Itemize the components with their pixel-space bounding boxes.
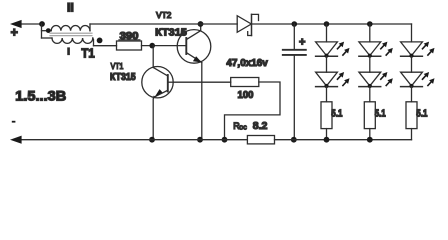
- wire: - rail from Roc to LED branches: [275, 139, 412, 141]
- LED HL1: [316, 42, 350, 58]
- wire: branch 1 top stem: [326, 24, 328, 42]
- wire: branch 3 top stem: [411, 24, 413, 42]
- wire: branch 2 between LEDs: [369, 56, 371, 72]
- wire: branch 2 LED to resistor: [369, 87, 371, 102]
- svg-text:T1: T1: [81, 46, 94, 60]
- wire: resistor 100 to - rail (stepped): [225, 82, 281, 140]
- resistor R 100: [231, 78, 259, 101]
- node A junction dot (rail to transformer): [39, 21, 45, 27]
- wire: branch 1 LED to resistor: [326, 87, 328, 102]
- wire: VT1 emitter down to - rail: [152, 97, 155, 140]
- transformer T1 core: [50, 33, 92, 36]
- svg-text:5.1: 5.1: [331, 109, 342, 120]
- transistor VT2 KT315: [177, 30, 211, 64]
- svg-text:8.2: 8.2: [253, 120, 268, 132]
- junction dot VT1 emitter on - rail: [149, 137, 155, 143]
- transformer T1 winding II (top): [42, 24, 91, 31]
- junction dot LED branch 1 on - rail: [324, 137, 330, 143]
- LED HL5: [401, 42, 435, 58]
- wire: + rail from diode to LED branches: [252, 23, 412, 25]
- transformer T1 winding I (bottom): [42, 38, 94, 46]
- svg-text:1.5...3В: 1.5...3В: [15, 87, 66, 103]
- wire: branch 3 bottom stem: [411, 129, 413, 140]
- diode VD1 (Schottky): [237, 14, 258, 35]
- LED HL3: [359, 42, 393, 58]
- resistor 5.1 branch 3: [406, 102, 428, 129]
- junction dot capacitor bottom on - rail: [291, 137, 297, 143]
- node B junction dot (390 / VT1 collector / VT2 base): [149, 43, 155, 49]
- LED HL2: [316, 72, 350, 88]
- svg-text:VT2: VT2: [156, 11, 171, 20]
- wire: winding I to resistor 390: [94, 45, 117, 47]
- junction dot LED branch 1 on + rail: [324, 21, 330, 27]
- capacitor C1 47,0x16v: [283, 37, 306, 55]
- wire: branch 2 bottom stem: [369, 129, 371, 140]
- wire: + input rail with arrow: [10, 20, 42, 28]
- LED HL4: [359, 72, 393, 88]
- wire: branch 1 bottom stem: [326, 129, 328, 140]
- resistor R 390: [117, 31, 142, 50]
- resistor 5.1 branch 1: [321, 102, 343, 129]
- junction dot VT2 emitter on - rail: [197, 137, 203, 143]
- wire: VT1 base to resistor 100: [173, 81, 231, 83]
- junction dot 100-step on - rail: [222, 137, 228, 143]
- wire: vertical from node A to winding ends: [41, 24, 43, 38]
- wire: branch 3 LED to resistor: [411, 87, 413, 102]
- LED HL6: [401, 72, 435, 88]
- svg-text:5.1: 5.1: [375, 109, 386, 120]
- wire: branch 2 top stem: [369, 24, 371, 42]
- junction dot VT2 collector on + rail: [198, 21, 204, 27]
- svg-text:100: 100: [238, 90, 254, 101]
- svg-text:+: +: [11, 25, 18, 39]
- phasing dot winding II: [46, 28, 51, 33]
- svg-text:ос: ос: [239, 124, 247, 131]
- wire: capacitor to - rail: [293, 55, 295, 140]
- wire: branch 3 between LEDs: [411, 56, 413, 72]
- transistor VT1 KT315: [142, 67, 173, 98]
- label - terminal: [12, 121, 16, 123]
- wire: resistor 390 to VT2 base: [142, 45, 187, 47]
- svg-text:КТ315: КТ315: [110, 72, 136, 83]
- junction dot LED branch 2 on + rail: [367, 21, 373, 27]
- svg-text:+: +: [299, 37, 305, 49]
- svg-text:47,0x16v: 47,0x16v: [226, 57, 268, 69]
- svg-text:II: II: [67, 3, 74, 15]
- svg-text:VT1: VT1: [111, 62, 124, 71]
- wire: branch 1 between LEDs: [326, 56, 328, 72]
- svg-text:КТ315: КТ315: [155, 27, 187, 39]
- wire: VT1 collector up to node B: [152, 46, 154, 68]
- svg-text:5.1: 5.1: [416, 109, 427, 120]
- wire: VT2 collector to + rail: [200, 24, 202, 31]
- svg-text:I: I: [67, 46, 70, 57]
- junction dot LED branch 2 on - rail: [367, 137, 373, 143]
- wire: + rail to capacitor: [293, 24, 295, 50]
- wire: - input rail with arrow: [10, 136, 247, 144]
- phasing dot winding I: [97, 38, 103, 44]
- wire: VT2 emitter down to - rail: [201, 63, 203, 140]
- resistor Roc 8.2: [233, 120, 274, 144]
- wire: + rail from winding II to diode: [90, 23, 237, 25]
- junction dot capacitor top on + rail: [292, 21, 298, 27]
- resistor 5.1 branch 2: [364, 102, 386, 129]
